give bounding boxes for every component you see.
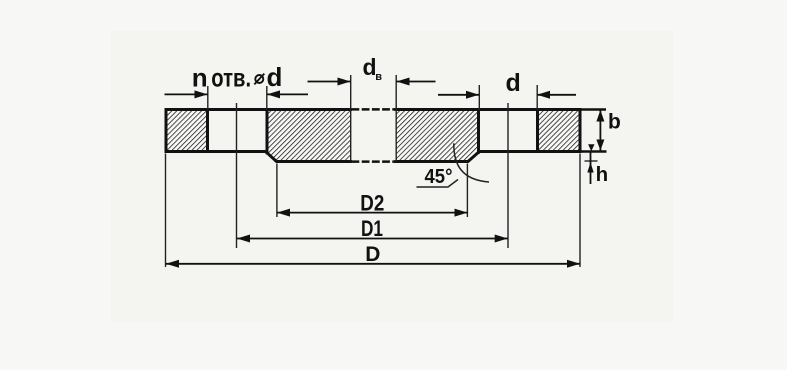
svg-text:D2: D2 (360, 190, 384, 215)
svg-text:n: n (192, 62, 208, 92)
svg-text:d: d (506, 69, 521, 97)
svg-text:b: b (608, 110, 621, 133)
svg-text:h: h (596, 163, 609, 186)
svg-text:отв.: отв. (211, 62, 251, 92)
svg-text:D: D (365, 243, 380, 266)
svg-text:в: в (375, 71, 382, 83)
svg-text:D1: D1 (361, 216, 383, 241)
svg-text:d: d (267, 62, 283, 92)
svg-text:45°: 45° (425, 165, 453, 188)
